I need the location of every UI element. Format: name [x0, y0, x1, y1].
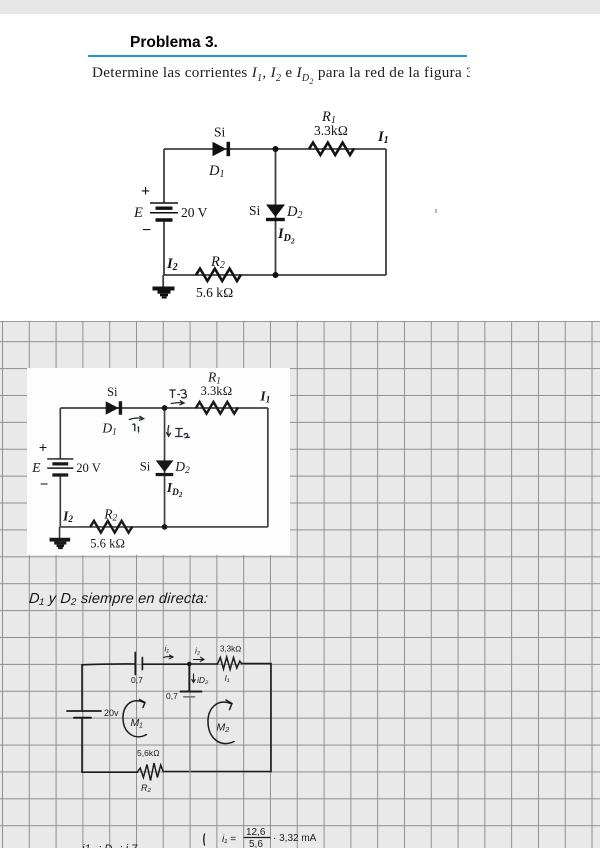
svg-text:D2: D2 — [174, 459, 190, 476]
wire top (E+ to right corner through D1, R1) — [164, 148, 386, 150]
wire right side — [270, 664, 272, 772]
wire bottom right — [163, 771, 271, 773]
wire left (battery branch) — [163, 149, 165, 275]
svg-text:Si: Si — [249, 203, 261, 218]
svg-text:3,3kΩ: 3,3kΩ — [220, 645, 241, 654]
battery 20V long plate — [67, 710, 101, 712]
heading Problema 3. — [130, 34, 218, 52]
wire right (scan) — [267, 408, 269, 527]
wire bottom (scan) — [59, 526, 267, 528]
resistor R1 (hand) — [218, 657, 242, 670]
svg-text:ID2: ID2 — [166, 480, 183, 499]
battery E (scan) — [47, 459, 73, 475]
svg-text:5.6 kΩ: 5.6 kΩ — [196, 285, 233, 300]
svg-text:20v: 20v — [104, 708, 119, 718]
SCANNED CIRCUIT (copy inside white rect) — [27, 368, 291, 555]
wire top to R1 — [189, 663, 217, 665]
wire top (scan) — [60, 407, 268, 409]
resistor R2 — [196, 269, 241, 281]
svg-text:Si: Si — [214, 125, 226, 140]
GRID PAPER SECTION — [0, 321, 600, 848]
svg-text:0,7: 0,7 — [131, 675, 143, 685]
diode D2 (scan) — [155, 460, 173, 476]
annotation i1 arrow (ink) — [129, 416, 143, 432]
svg-text:I₁: I₁ — [225, 673, 230, 683]
node A (top junction) — [273, 146, 279, 152]
wire middle branch lower (faint) — [189, 698, 191, 772]
svg-text:5,6kΩ: 5,6kΩ — [137, 748, 160, 758]
svg-text:D1: D1 — [208, 163, 224, 180]
wire top left (to D1 source) — [82, 663, 135, 666]
annotation I2 down arrow (ink) — [166, 425, 189, 437]
svg-text:0,7: 0,7 — [166, 691, 178, 701]
PRINTED CIRCUIT — [125, 100, 405, 310]
node B (bottom junction) — [273, 272, 279, 278]
resistor R2 (scan) — [90, 521, 132, 533]
ground (scan) — [49, 538, 70, 549]
wire to ground — [162, 275, 164, 287]
top gray bar — [0, 0, 600, 14]
battery 20V short plate — [74, 717, 91, 719]
svg-text:i₁: i₁ — [165, 644, 170, 654]
annotation I3 arrow (ink) — [169, 390, 186, 405]
svg-text:R2: R2 — [103, 506, 117, 523]
wire to ground (scan) — [58, 527, 60, 538]
arrow i2 — [194, 657, 205, 661]
battery E — [150, 203, 178, 220]
wire left (scan) — [59, 408, 61, 527]
mesh arrow M1 — [123, 701, 147, 737]
diode D2 source bottom plate — [184, 696, 195, 698]
svg-text:Si: Si — [107, 385, 118, 399]
svg-text:I2: I2 — [62, 508, 73, 525]
svg-text:M₁: M₁ — [131, 717, 144, 729]
handwritten title: D1 y D2 siempre en directa: — [28, 591, 259, 607]
svg-text:20 V: 20 V — [181, 205, 208, 220]
resistor R1 — [309, 143, 354, 155]
svg-text:5.6 kΩ: 5.6 kΩ — [90, 537, 125, 551]
mesh arrow M2 — [208, 702, 234, 743]
diode D2 — [266, 205, 285, 222]
svg-text:E: E — [31, 460, 41, 475]
node B (scan) — [161, 524, 167, 530]
svg-text:−: − — [39, 477, 48, 493]
node A (scan) — [161, 405, 167, 411]
svg-text:12,6: 12,6 — [246, 827, 266, 838]
tick mark — [203, 834, 206, 845]
diode D2 source top plate — [181, 691, 202, 693]
node junction — [187, 662, 192, 667]
wire middle branch upper — [188, 664, 190, 691]
svg-text:+: + — [141, 183, 150, 200]
bottom handwritten calculation — [60, 815, 440, 848]
wire middle (scan) — [163, 408, 165, 527]
svg-text:5,6: 5,6 — [249, 839, 263, 848]
ground — [153, 287, 175, 299]
svg-text:R₂: R₂ — [141, 783, 151, 793]
svg-text:M₂: M₂ — [217, 722, 230, 734]
svg-text:+: + — [38, 440, 47, 456]
wire right — [385, 149, 387, 275]
svg-text:3.3kΩ: 3.3kΩ — [200, 384, 232, 398]
diode D1 (scan) — [105, 401, 121, 415]
wire middle (D2 branch) — [275, 149, 277, 275]
svg-text:R2: R2 — [210, 254, 225, 271]
svg-text:i₂: i₂ — [195, 646, 201, 656]
svg-text:3.3kΩ: 3.3kΩ — [314, 123, 348, 138]
svg-text:ID2: ID2 — [277, 226, 295, 246]
wire bottom — [163, 274, 386, 276]
diode D1 source plates — [134, 653, 136, 675]
HAND-DRAWN MESH CIRCUIT — [55, 630, 295, 800]
svg-text:20 V: 20 V — [76, 461, 101, 475]
wire top right — [242, 663, 272, 665]
resistor R1 (scan) — [196, 402, 238, 414]
wire left side lower — [81, 719, 83, 773]
diode D1 — [213, 142, 231, 156]
svg-text:i1₀ ; D₂ ; i 7: i1₀ ; D₂ ; i 7 — [82, 843, 138, 848]
svg-text:· 3,32 mA: · 3,32 mA — [273, 833, 317, 844]
wire top middle — [143, 663, 189, 665]
resistor R2 (hand) — [137, 763, 163, 781]
svg-text:I2: I2 — [166, 256, 178, 273]
svg-text:Si: Si — [139, 459, 150, 473]
blue rule — [88, 55, 467, 57]
paragraph — [92, 64, 470, 84]
arrow i1 — [164, 655, 174, 659]
svg-text:−: − — [142, 222, 151, 239]
svg-text:iD₂: iD₂ — [197, 675, 209, 685]
faint dot artifact — [435, 209, 437, 213]
svg-text:I1: I1 — [259, 388, 270, 405]
svg-text:E: E — [133, 205, 143, 221]
wire bottom left — [82, 771, 137, 773]
label iD2 with down arrow — [192, 674, 195, 683]
svg-text:D1: D1 — [101, 420, 116, 437]
white pasted screenshot rectangle — [27, 368, 291, 555]
wire left side upper — [81, 665, 83, 711]
svg-text:D2: D2 — [286, 204, 302, 221]
svg-text:I1: I1 — [377, 129, 389, 146]
svg-text:i₁ =: i₁ = — [222, 834, 236, 845]
